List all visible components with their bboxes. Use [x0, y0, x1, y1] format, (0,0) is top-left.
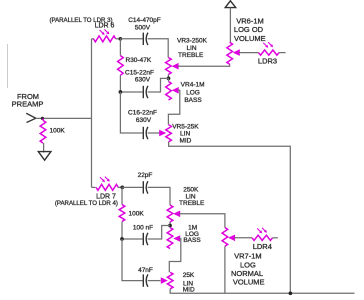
wire VR3 wiper to VR6 bottom — [178, 64, 230, 66]
wire triangle to VR6 — [229, 8, 231, 43]
wire VR7 wiper to LDR4 — [234, 237, 252, 239]
svg-text:LOG: LOG — [186, 89, 200, 96]
resistor 100K (bottom rail) — [121, 187, 123, 204]
resistor R30 leads — [119, 39, 121, 56]
LDR LDR6 — [92, 38, 95, 40]
svg-text:25K: 25K — [183, 272, 195, 279]
svg-text:(PARALLEL TO LDR 4): (PARALLEL TO LDR 4) — [55, 200, 118, 207]
svg-text:TREBLE: TREBLE — [178, 52, 204, 59]
svg-text:100K: 100K — [129, 210, 145, 217]
svg-text:100 nF: 100 nF — [133, 224, 153, 231]
LDR LDR4 — [252, 235, 273, 240]
svg-text:MID: MID — [183, 286, 195, 293]
svg-text:VOLUME: VOLUME — [234, 34, 266, 43]
node top-left rail junction — [119, 37, 123, 41]
wire VR4 wiper jog down to VR5 — [168, 90, 179, 125]
svg-text:TREBLE: TREBLE — [179, 200, 205, 207]
svg-text:BASS: BASS — [184, 97, 202, 104]
svg-text:VR3-250K: VR3-250K — [177, 38, 208, 45]
svg-text:100K: 100K — [50, 128, 66, 135]
input arrow FROM PREAMP — [26, 113, 36, 122]
svg-text:LDR3: LDR3 — [258, 57, 277, 66]
LDR7 light arrows — [100, 177, 110, 183]
wire C14 to right rail — [148, 39, 169, 58]
wire 250K wiper to VR7 top — [179, 214, 225, 228]
wire from-preamp horizontal — [37, 117, 92, 119]
svg-text:VR4-1M: VR4-1M — [181, 82, 205, 89]
svg-text:LDR4: LDR4 — [253, 242, 272, 251]
svg-text:PREAMP: PREAMP — [12, 99, 44, 108]
potentiometer VR3 — [166, 58, 172, 75]
wire 22pF to 250K pot — [148, 187, 170, 205]
svg-text:R30-47K: R30-47K — [126, 57, 152, 64]
svg-text:C14-470pF: C14-470pF — [128, 17, 161, 24]
resistor R30-47K — [118, 56, 124, 76]
svg-text:22pF: 22pF — [138, 172, 153, 179]
VR5 wiper arrow — [159, 130, 166, 137]
LDR3 light arrows — [263, 42, 273, 48]
VR3 wiper arrow — [172, 63, 179, 70]
wire top rail to C14 — [120, 38, 142, 40]
wire LDR3 stub — [279, 52, 286, 54]
node bottom bus junction — [289, 291, 293, 295]
LDR6 light arrows — [100, 29, 110, 35]
svg-text:MID: MID — [179, 137, 191, 144]
wire LDR4 stub — [273, 237, 278, 239]
svg-text:VR6-1M: VR6-1M — [236, 16, 264, 25]
wire left rail down to 47nF — [122, 239, 143, 281]
VR6 wiper arrow — [233, 49, 240, 56]
node 250K/1M junction — [168, 224, 172, 228]
svg-text:LIN: LIN — [180, 130, 190, 137]
LDR4 light arrows — [257, 228, 267, 234]
VR4 wiper arrow — [172, 87, 179, 94]
node input junction — [41, 117, 44, 120]
node C15 left junction — [119, 90, 123, 94]
node LDR7 junction — [120, 186, 124, 190]
wire VR5 bottom to right bus — [169, 142, 291, 293]
svg-text:630V: 630V — [135, 76, 151, 83]
wire input vertical bus — [91, 39, 93, 188]
node VR3/VR4 junction — [167, 77, 171, 81]
ground — [38, 152, 51, 161]
potentiometer 1M bass — [167, 228, 173, 249]
wire to ground — [43, 143, 45, 153]
potentiometer 250K treble — [167, 205, 173, 222]
wire 100nF step to 250K/1M node — [148, 226, 170, 240]
svg-text:BASS: BASS — [183, 237, 201, 244]
VR7 wiper arrow — [228, 235, 235, 242]
250K wiper arrow — [173, 211, 180, 218]
wire 25K bottom rail — [170, 289, 354, 294]
LDR LDR3 — [259, 50, 280, 55]
svg-text:500V: 500V — [135, 24, 151, 31]
wire C16 to VR5 wiper — [148, 132, 161, 134]
svg-text:630V: 630V — [136, 117, 152, 124]
25K wiper arrow — [161, 277, 168, 284]
potentiometer VR6 — [227, 42, 233, 64]
wire VR6 wiper to LDR3 — [239, 52, 259, 54]
node 100nF left junction — [120, 237, 124, 241]
resistor 100K (input shunt) — [40, 120, 46, 143]
svg-text:C16-22nF: C16-22nF — [128, 110, 157, 117]
output triangle — [225, 1, 236, 8]
potentiometer VR5 — [166, 125, 172, 142]
potentiometer VR7 — [222, 228, 228, 247]
1M wiper arrow — [173, 235, 180, 242]
LDR LDR7 — [96, 184, 118, 190]
wire 1M wiper jog down to 25K — [169, 239, 181, 273]
potentiometer VR4 — [166, 82, 172, 101]
wire C15 row — [120, 91, 142, 93]
wire C15 step to VR3/VR4 node — [148, 78, 169, 92]
svg-text:LDR 6: LDR 6 — [95, 23, 115, 30]
wire 47nF to 25K wiper — [148, 280, 161, 282]
wire 22pF row — [122, 186, 142, 188]
LDR LDR7 row — [92, 186, 96, 188]
svg-text:VR7-1M: VR7-1M — [234, 252, 262, 261]
edge artifact line — [7, 44, 9, 88]
wire left rail down to C16 — [120, 92, 142, 133]
svg-text:LIN: LIN — [186, 45, 196, 52]
svg-text:VOLUME: VOLUME — [233, 278, 265, 287]
potentiometer 25K mid — [167, 272, 173, 289]
svg-text:47nF: 47nF — [138, 267, 153, 274]
wire 100nF row — [122, 238, 143, 240]
